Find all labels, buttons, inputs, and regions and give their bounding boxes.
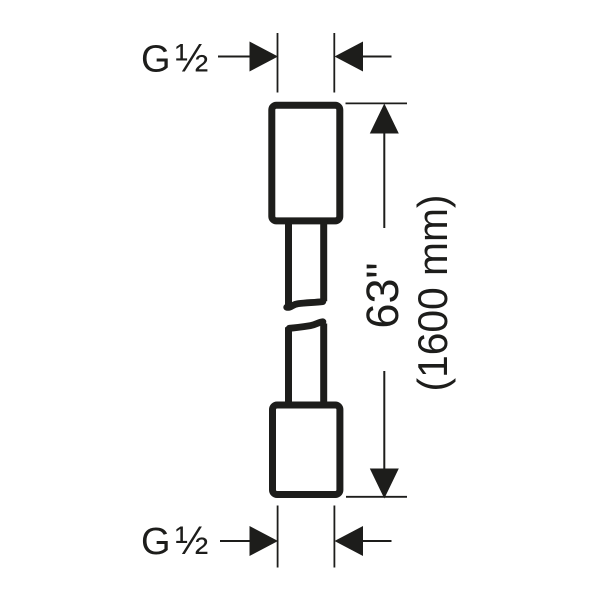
top width dimension: left leader line	[218, 56, 262, 58]
top connector nut	[272, 105, 340, 221]
top width dimension: left extension line	[277, 33, 279, 93]
bottom width dimension: left arrowhead	[250, 526, 279, 556]
bottom width dimension: right extension line	[333, 506, 335, 568]
hose lower segment right wall	[320, 324, 327, 404]
svg-text:(1600 mm): (1600 mm)	[409, 195, 456, 392]
top width dimension: right extension line	[333, 33, 335, 93]
hose upper segment break edge	[287, 302, 323, 308]
length dimension line lower segment	[383, 371, 385, 497]
hose upper segment right wall	[320, 219, 327, 301]
svg-text:G½: G½	[141, 37, 208, 81]
length dimension up arrowhead	[370, 104, 399, 134]
extension line from top connector to length dimension	[346, 102, 408, 104]
hose lower segment break edge	[289, 322, 323, 329]
svg-text:G½: G½	[141, 519, 208, 563]
hose upper segment left wall	[285, 219, 292, 305]
top width dimension: right arrowhead	[335, 42, 364, 72]
length dimension line upper segment	[383, 106, 385, 228]
bottom connector nut	[273, 405, 340, 495]
top width dimension: left arrowhead	[250, 42, 279, 72]
hose lower segment left wall	[285, 327, 292, 403]
bottom width dimension: right arrowhead	[335, 526, 364, 556]
extension line from bottom connector to length dimension	[346, 496, 407, 498]
top width dimension: right leader line	[352, 56, 392, 58]
length dimension down arrowhead	[370, 469, 399, 499]
svg-text:63": 63"	[357, 262, 408, 328]
bottom width dimension: left extension line	[277, 506, 279, 568]
bottom width dimension: right leader line	[352, 540, 392, 542]
bottom width dimension: left leader line	[220, 540, 262, 542]
